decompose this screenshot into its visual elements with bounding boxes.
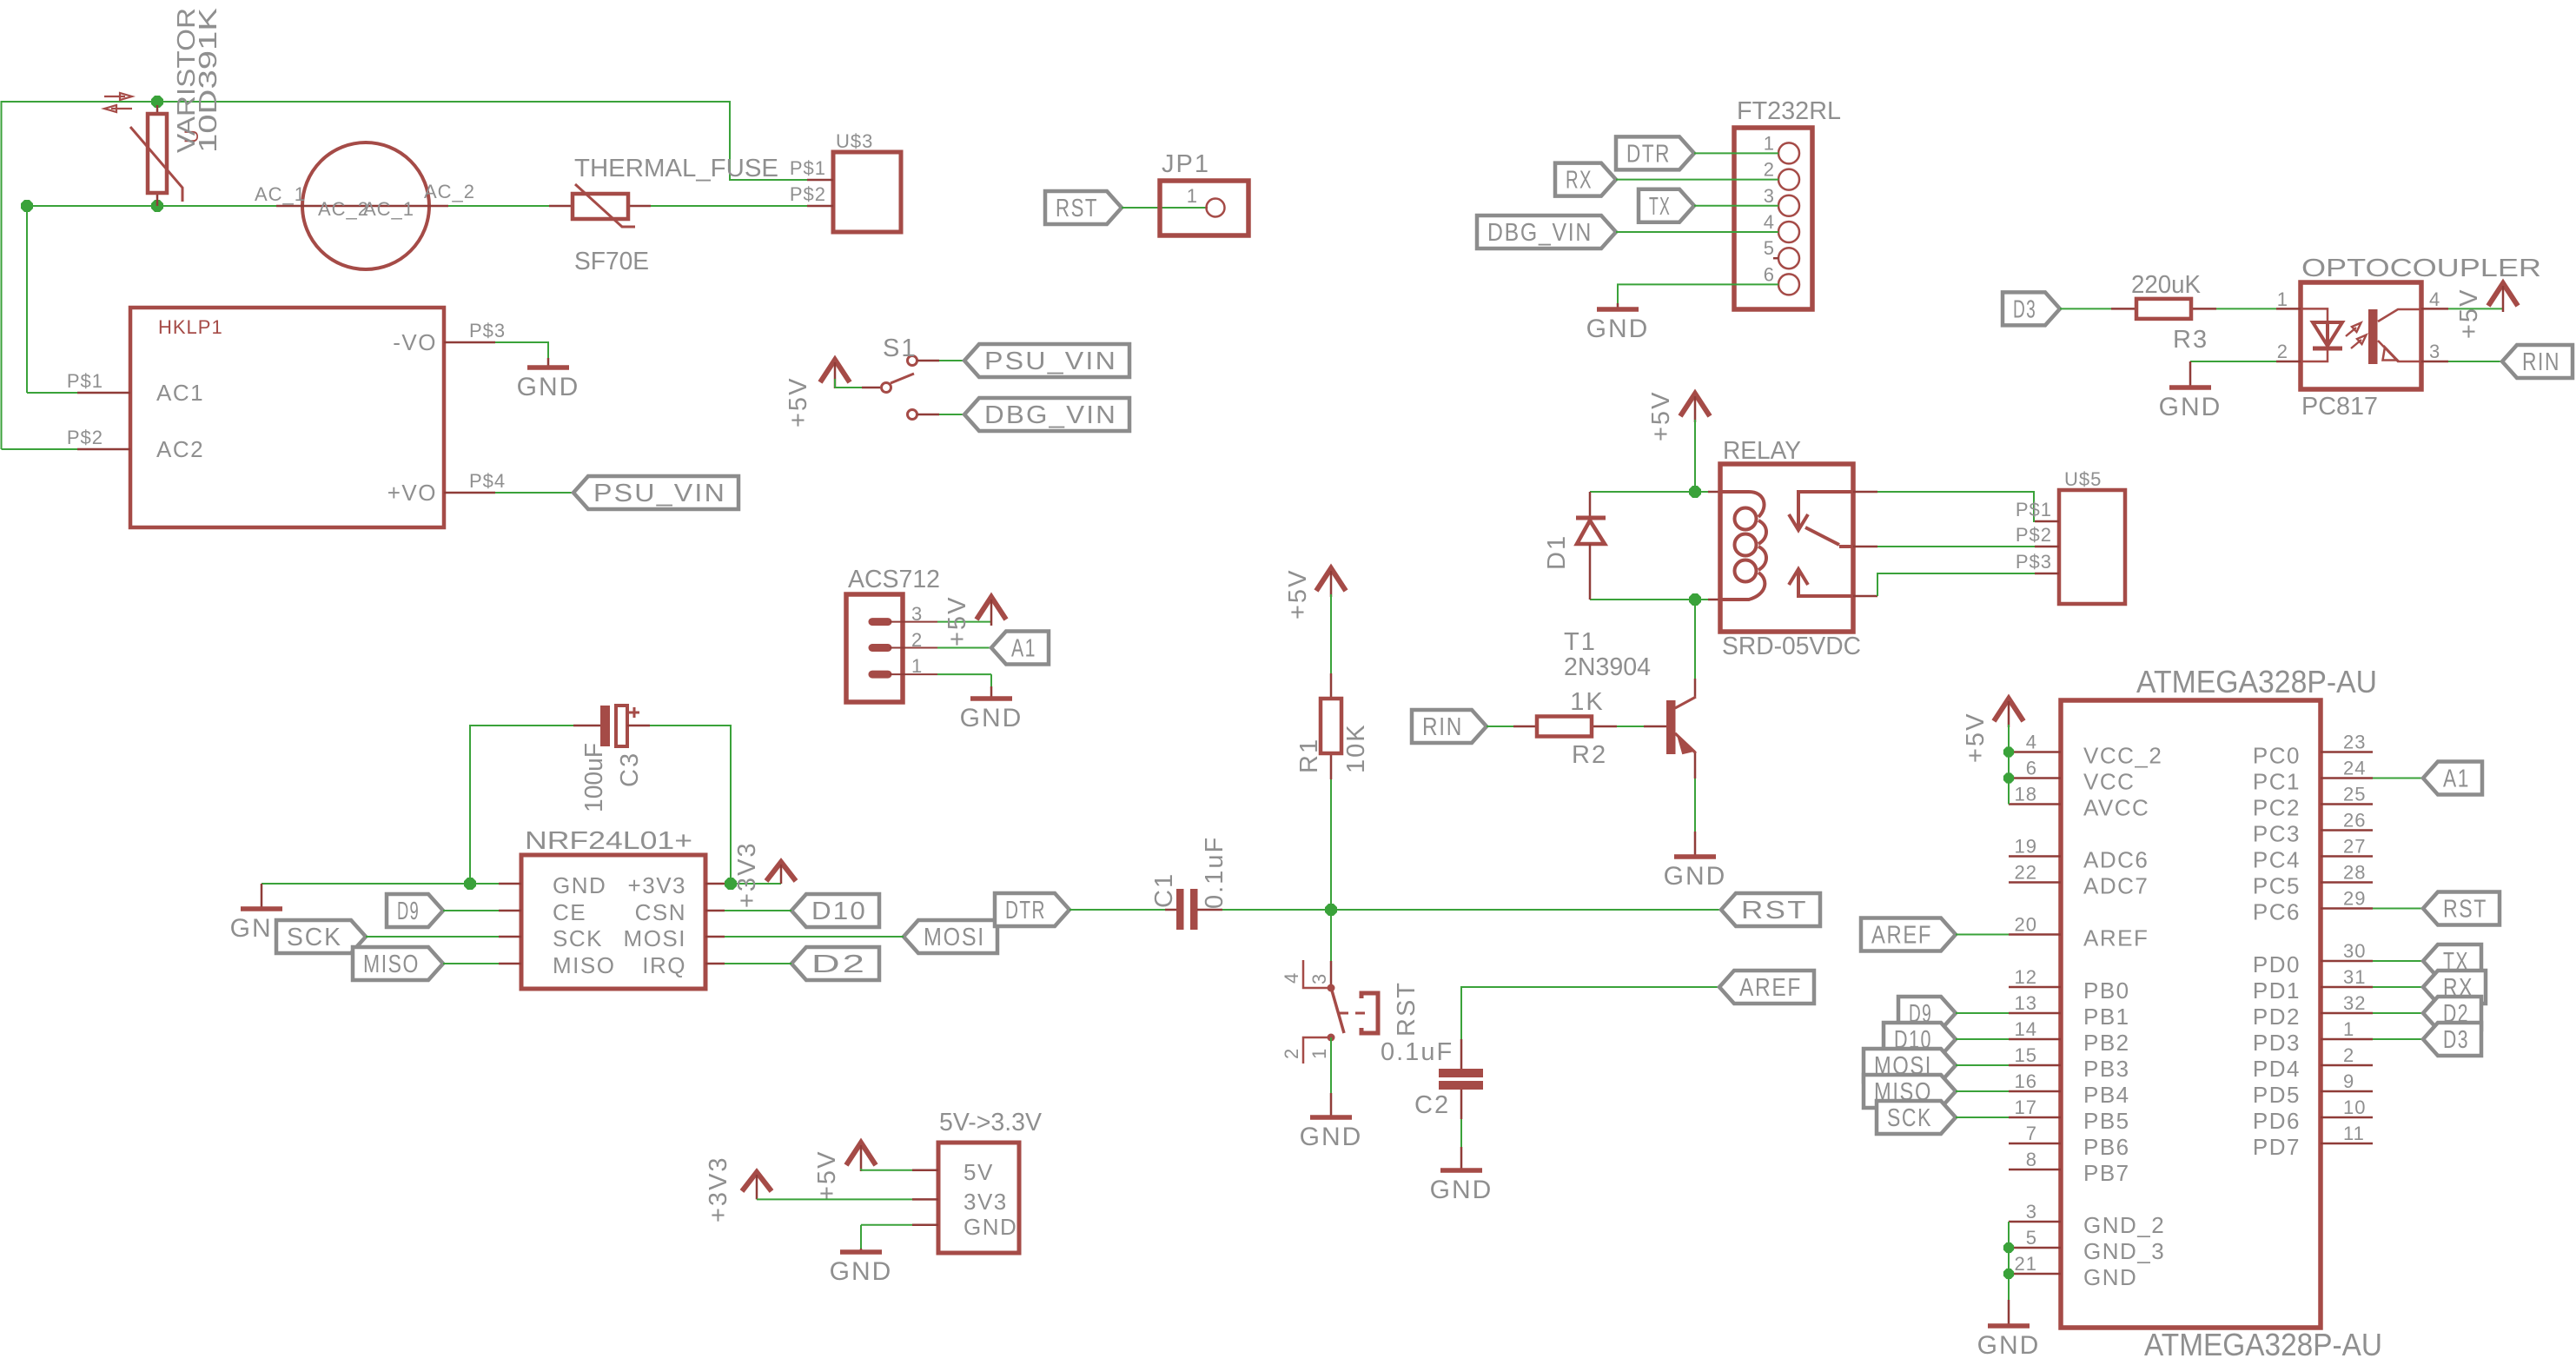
node junction NRF GND / C3 <box>465 878 475 889</box>
wire relay coil bottom to T1 collector <box>1694 600 1696 679</box>
node junction AC_2 / varistor bottom <box>22 201 32 211</box>
svg-text:GND: GND <box>1430 1176 1493 1204</box>
wire D9 to PB1 <box>1956 1012 2009 1014</box>
wire DBG_VIN to FT232RL pin 4 <box>1616 231 1778 233</box>
transistor T1 (2N3904) <box>1694 679 1697 697</box>
svg-text:+3V3: +3V3 <box>733 841 761 908</box>
wire MOSI to PB3 <box>1956 1064 2009 1066</box>
svg-text:MISO: MISO <box>553 952 615 978</box>
svg-text:GND: GND <box>1977 1331 2041 1360</box>
wire ACS712 pin 1 to GND <box>937 673 991 675</box>
svg-text:10K: 10K <box>1342 723 1370 773</box>
wire PC6 to RST label <box>2373 908 2423 910</box>
svg-text:1: 1 <box>2343 1018 2354 1040</box>
wire RX to FT232RL pin 2 <box>1616 179 1778 181</box>
svg-text:CE: CE <box>553 899 586 925</box>
wire SCK to NRF SCK <box>366 936 499 938</box>
wire AREF net <box>1461 987 1719 1039</box>
ground symbol at ATmega <box>2008 1300 2010 1326</box>
svg-text:1: 1 <box>1764 132 1775 154</box>
svg-text:R1: R1 <box>1295 738 1323 773</box>
wire +VO to PSU_VIN label <box>495 492 573 494</box>
svg-text:P$1: P$1 <box>2016 499 2052 520</box>
svg-text:D10: D10 <box>811 898 867 925</box>
svg-text:PC0: PC0 <box>2253 743 2301 769</box>
svg-text:19: 19 <box>2015 836 2037 858</box>
wire C3 right <box>650 726 731 884</box>
svg-text:PB1: PB1 <box>2083 1004 2130 1030</box>
svg-text:27: 27 <box>2343 836 2366 858</box>
net label MOSI at ATmega <box>1864 1049 1956 1082</box>
net label PSU_VIN at S1 <box>964 344 1129 377</box>
svg-text:PD0: PD0 <box>2253 951 2301 977</box>
svg-text:SCK: SCK <box>1887 1104 1932 1132</box>
svg-text:3: 3 <box>911 603 923 625</box>
svg-text:OPTOCOUPLER: OPTOCOUPLER <box>2301 255 2541 282</box>
svg-text:24: 24 <box>2343 758 2366 779</box>
wire NRF +3V3 pin to arrow <box>725 883 781 885</box>
svg-text:DTR: DTR <box>1005 897 1046 924</box>
net label MISO at NRF <box>353 947 443 980</box>
reset switch arm <box>1332 991 1344 1033</box>
svg-text:+3V3: +3V3 <box>628 872 686 898</box>
wire +5V to S1 common <box>834 379 836 388</box>
svg-text:2: 2 <box>911 629 923 651</box>
svg-text:3: 3 <box>2429 341 2440 362</box>
svg-text:10: 10 <box>2343 1097 2366 1118</box>
svg-text:C2: C2 <box>1414 1091 1450 1119</box>
net label RST at ATmega <box>2423 892 2500 925</box>
wire ATmega GND pins <box>2008 1222 2010 1300</box>
svg-text:GND: GND <box>553 872 606 898</box>
svg-text:4: 4 <box>2429 288 2440 310</box>
net label RST at JP1 <box>1045 191 1122 224</box>
resistor R3 <box>2111 308 2136 310</box>
net label RIN at R2 <box>1412 710 1487 743</box>
svg-text:13: 13 <box>2015 992 2037 1014</box>
wire NRF IRQ to D2 <box>725 963 791 964</box>
svg-text:28: 28 <box>2343 862 2366 884</box>
svg-text:RIN: RIN <box>2522 348 2560 376</box>
reset switch pins 4/3 <box>1330 961 1333 984</box>
svg-text:PC5: PC5 <box>2253 873 2301 899</box>
svg-text:PC1: PC1 <box>2253 769 2301 795</box>
svg-text:2: 2 <box>2343 1044 2354 1066</box>
net label D2 at NRF <box>791 947 879 980</box>
svg-text:5: 5 <box>2026 1227 2037 1249</box>
svg-text:2: 2 <box>2277 341 2288 362</box>
svg-text:PC6: PC6 <box>2253 899 2301 925</box>
svg-text:AC_2: AC_2 <box>424 181 475 202</box>
svg-text:100uF: 100uF <box>580 743 608 812</box>
svg-text:1: 1 <box>911 655 923 677</box>
HKLP1 pin -VO <box>444 341 495 344</box>
svg-text:1: 1 <box>1308 1048 1330 1059</box>
wire AC_1 branch to HKLP1 P$2 pin <box>2 448 78 450</box>
svg-text:+5V: +5V <box>1647 391 1675 441</box>
svg-text:T1: T1 <box>1564 628 1597 656</box>
net label SCK at ATmega <box>1877 1101 1956 1134</box>
wire DTR to FT232RL pin 1 <box>1694 152 1778 154</box>
svg-text:RST: RST <box>1056 195 1098 222</box>
svg-text:20: 20 <box>2015 914 2037 936</box>
svg-text:PC2: PC2 <box>2253 795 2301 821</box>
wire TX to FT232RL pin 3 <box>1694 205 1778 207</box>
wire reset switch to GND <box>1330 1037 1332 1093</box>
svg-text:PB3: PB3 <box>2083 1056 2130 1082</box>
svg-text:GND: GND <box>2083 1264 2137 1290</box>
wire regulator GND pin to ground <box>861 1224 912 1226</box>
net label RST at wire end <box>1721 893 1820 926</box>
net label D9 at NRF <box>387 894 443 927</box>
svg-text:D1: D1 <box>1543 534 1571 570</box>
svg-text:17: 17 <box>2015 1097 2037 1118</box>
svg-text:A1: A1 <box>2443 765 2470 793</box>
relay K1 (SRD-05VDC) <box>1720 464 1853 632</box>
resistor R1 (10K) <box>1330 673 1333 699</box>
wire AC_2 segment circle to fuse <box>448 205 549 207</box>
wire D3 to R3 <box>2060 308 2111 309</box>
svg-text:P$2: P$2 <box>790 183 826 205</box>
svg-text:P$1: P$1 <box>67 370 103 392</box>
svg-text:RELAY: RELAY <box>1723 437 1801 465</box>
net label RX at ATmega <box>2423 971 2486 1004</box>
svg-text:GND_2: GND_2 <box>2083 1212 2165 1238</box>
wire AC_2 net left segment <box>27 206 276 393</box>
svg-text:PC817: PC817 <box>2301 393 2378 421</box>
svg-text:PB0: PB0 <box>2083 977 2130 1004</box>
wire R3 to PC817 pin 1 <box>2216 308 2276 309</box>
svg-text:PD2: PD2 <box>2253 1004 2301 1030</box>
svg-text:+3V3: +3V3 <box>705 1156 732 1223</box>
net label A1 at ACS712 <box>991 632 1049 665</box>
svg-text:GND: GND <box>964 1214 1017 1240</box>
svg-text:S1: S1 <box>883 335 917 362</box>
wire MISO to NRF MISO <box>443 963 499 964</box>
wire AC_2 branch to HKLP1 P$1 pin <box>27 392 77 394</box>
svg-text:ADC6: ADC6 <box>2083 847 2149 873</box>
svg-text:4: 4 <box>2026 732 2037 753</box>
wire R2 to T1 base <box>1617 726 1644 727</box>
svg-text:HKLP1: HKLP1 <box>158 316 223 338</box>
ground symbol at C2 <box>1460 1147 1463 1170</box>
net label D9 at ATmega <box>1898 997 1956 1030</box>
svg-text:+5V: +5V <box>785 377 812 427</box>
jumper JP1 <box>1160 181 1248 235</box>
node junction GND_3 <box>2004 1243 2013 1252</box>
svg-text:+5V: +5V <box>1284 569 1312 620</box>
svg-text:U$5: U$5 <box>2064 468 2102 490</box>
wire ACS712 pin 2 to A1 label <box>937 647 991 649</box>
net label RX at FT232RL <box>1555 163 1616 196</box>
ground symbol at HKLP1 -VO <box>547 358 550 368</box>
svg-text:DBG_VIN: DBG_VIN <box>984 401 1117 429</box>
wire PD3 to D3 label <box>2373 1038 2423 1040</box>
wire C2 to GND <box>1460 1119 1462 1147</box>
svg-text:+5V: +5V <box>813 1150 841 1201</box>
AC input pin arrow (bottom) <box>111 108 132 109</box>
net label DTR at FT232RL <box>1616 136 1694 169</box>
svg-text:0.1uF: 0.1uF <box>1201 836 1228 909</box>
wire S1 to DBG_VIN label <box>939 414 964 415</box>
svg-text:MOSI: MOSI <box>924 924 985 951</box>
svg-text:3: 3 <box>2026 1201 2037 1223</box>
svg-text:ACS712: ACS712 <box>848 566 940 593</box>
wire D10 to PB2 <box>1956 1038 2009 1040</box>
wire coil bottom to D1 anode <box>1590 599 1695 600</box>
svg-text:21: 21 <box>2015 1253 2037 1275</box>
wire AREF to ATmega pin 20 <box>1956 934 2009 936</box>
node junction AC_1 / varistor top <box>152 96 162 107</box>
svg-text:30: 30 <box>2343 940 2366 962</box>
svg-text:AREF: AREF <box>1871 922 1932 950</box>
wire PC817 pin 3 to RIN label <box>2448 361 2502 362</box>
net label DTR at C1 <box>995 893 1069 926</box>
svg-text:GND_3: GND_3 <box>2083 1238 2165 1264</box>
svg-text:3: 3 <box>1764 185 1775 207</box>
svg-text:0.1uF: 0.1uF <box>1381 1038 1454 1066</box>
svg-text:CSN: CSN <box>635 899 686 925</box>
svg-text:AC_1: AC_1 <box>363 198 414 220</box>
svg-text:SF70E: SF70E <box>574 248 649 275</box>
node junction RST net <box>1326 904 1336 915</box>
wire +5V to VCC pins <box>2008 725 2010 805</box>
svg-text:+5V: +5V <box>1962 712 1990 763</box>
net label D10 at ATmega <box>1884 1023 1956 1056</box>
ground symbol at regulator <box>860 1249 863 1252</box>
svg-text:AC_2: AC_2 <box>318 198 369 220</box>
optocoupler U (PC817) <box>2301 282 2421 389</box>
svg-text:9: 9 <box>2343 1070 2354 1092</box>
net label AREF at C2 <box>1719 971 1814 1004</box>
ground symbol at ACS712 <box>990 686 993 699</box>
svg-text:MOSI: MOSI <box>624 925 686 951</box>
power symbol +5V at relay <box>1680 394 1710 416</box>
svg-text:SCK: SCK <box>553 925 603 951</box>
svg-text:ATMEGA328P-AU: ATMEGA328P-AU <box>2136 664 2377 699</box>
wire GND to PC817 pin 2 <box>2190 361 2276 362</box>
svg-text:18: 18 <box>2015 784 2037 805</box>
svg-text:PB4: PB4 <box>2083 1082 2130 1108</box>
svg-text:GND: GND <box>1664 862 1727 891</box>
wire NRF GND pin to ground <box>262 883 499 885</box>
svg-text:RST: RST <box>1741 897 1808 924</box>
header FT232RL <box>1734 128 1812 309</box>
svg-text:2: 2 <box>1281 1048 1302 1059</box>
varistor U 10D391K body <box>156 105 159 114</box>
wire PC1 to A1 label <box>2373 778 2423 779</box>
node junction varistor bottom on AC_2 <box>152 201 162 211</box>
svg-text:PSU_VIN: PSU_VIN <box>984 348 1117 375</box>
power symbol +3V3 at NRF <box>766 862 796 881</box>
wire junction to relay coil pins <box>1695 491 1708 493</box>
svg-text:SCK: SCK <box>287 924 342 951</box>
svg-text:4: 4 <box>1764 211 1775 233</box>
svg-text:PD1: PD1 <box>2253 977 2301 1004</box>
svg-text:RST: RST <box>1393 981 1420 1037</box>
net label TX at ATmega <box>2423 944 2481 977</box>
svg-text:AREF: AREF <box>2083 925 2149 951</box>
wire AC_1 net (top rail from AC input to U$3 P$1) <box>2 102 808 449</box>
diode D1 <box>1589 492 1592 516</box>
connector U$5 <box>2059 490 2125 604</box>
node junction relay coil bottom <box>1690 594 1700 605</box>
net label PSU_VIN at HKLP1 <box>573 476 738 509</box>
svg-text:JP1: JP1 <box>1162 150 1210 178</box>
HKLP1 pin AC1 <box>77 392 130 394</box>
svg-text:+5V: +5V <box>944 596 971 646</box>
svg-text:PD7: PD7 <box>2253 1134 2301 1160</box>
wire +3V3 to regulator 3V3 pin <box>757 1198 912 1200</box>
node junction relay coil top <box>1690 487 1700 497</box>
wire RST to JP1 pin 1 <box>1122 207 1206 209</box>
svg-text:D3: D3 <box>2443 1026 2469 1054</box>
wire R1 to RST node <box>1330 779 1332 910</box>
svg-text:4: 4 <box>1281 972 1302 984</box>
power module HKLP1 box <box>130 308 444 527</box>
node junction GND <box>2004 1269 2013 1278</box>
svg-text:31: 31 <box>2343 966 2366 988</box>
svg-text:6: 6 <box>2026 758 2037 779</box>
FT232RL pin 5 stub <box>1773 257 1778 260</box>
svg-text:R3: R3 <box>2173 326 2208 354</box>
power symbol +3V3 at regulator <box>742 1172 771 1191</box>
svg-text:10D391K: 10D391K <box>195 7 222 153</box>
svg-text:5V: 5V <box>964 1159 994 1185</box>
svg-text:1: 1 <box>2277 288 2288 310</box>
svg-text:GND: GND <box>1586 315 1650 343</box>
wire +5V to R1 <box>1330 594 1332 673</box>
svg-text:PSU_VIN: PSU_VIN <box>593 480 726 507</box>
svg-text:GND: GND <box>830 1257 893 1286</box>
capacitor C1 (0.1uF) <box>1165 909 1176 911</box>
wire +5V to relay coil top <box>1694 420 1696 492</box>
svg-text:PC3: PC3 <box>2253 821 2301 847</box>
svg-text:PB6: PB6 <box>2083 1134 2130 1160</box>
svg-text:DTR: DTR <box>1626 140 1671 168</box>
switch S1 common contact <box>862 387 880 389</box>
svg-text:GND: GND <box>1300 1123 1363 1151</box>
svg-text:1: 1 <box>1187 185 1198 207</box>
HKLP1 pin +VO <box>444 492 495 494</box>
svg-text:23: 23 <box>2343 732 2366 753</box>
svg-text:GND: GND <box>2159 393 2222 421</box>
wire FT232RL pin 6 to GND <box>1618 284 1778 303</box>
wire MISO to PB4 <box>1956 1090 2009 1092</box>
svg-text:PB5: PB5 <box>2083 1108 2130 1134</box>
svg-text:PC4: PC4 <box>2253 847 2301 873</box>
svg-text:DBG_VIN: DBG_VIN <box>1487 219 1593 247</box>
svg-text:5: 5 <box>1764 237 1775 259</box>
reset switch button symbol <box>1339 1012 1365 1015</box>
wire relay NO contact to U$5 P$1 <box>1853 491 1877 494</box>
svg-text:16: 16 <box>2015 1070 2037 1092</box>
svg-text:U$3: U$3 <box>836 130 873 152</box>
ground symbol at T1 emitter <box>1694 832 1697 857</box>
svg-text:11: 11 <box>2343 1123 2365 1144</box>
svg-text:GND: GND <box>960 704 1023 732</box>
resistor R2 <box>1513 726 1537 728</box>
wire SCK to PB5 <box>1956 1117 2009 1118</box>
svg-text:32: 32 <box>2343 992 2366 1014</box>
svg-text:6: 6 <box>1764 263 1775 285</box>
svg-text:VCC_2: VCC_2 <box>2083 743 2162 769</box>
svg-text:AC_1: AC_1 <box>255 183 306 205</box>
net label D3 at ATmega <box>2423 1023 2481 1056</box>
current transformer circle <box>302 142 429 269</box>
svg-text:SRD-05VDC: SRD-05VDC <box>1722 633 1861 660</box>
svg-text:GND: GND <box>517 373 580 401</box>
net label A1 at ATmega <box>2423 762 2482 795</box>
svg-text:RST: RST <box>2443 896 2487 924</box>
svg-text:C1: C1 <box>1150 872 1178 908</box>
net label DBG_VIN at S1 <box>964 398 1129 431</box>
svg-text:D3: D3 <box>2013 295 2036 323</box>
svg-text:D2: D2 <box>811 951 867 978</box>
svg-text:29: 29 <box>2343 888 2366 910</box>
net label D3 <box>2003 292 2060 325</box>
svg-text:7: 7 <box>2026 1123 2037 1144</box>
svg-text:AC1: AC1 <box>156 380 204 406</box>
ground symbol at reset switch <box>1330 1093 1333 1117</box>
wire PC817 pin 4 to +5V <box>2448 308 2503 309</box>
svg-text:PD3: PD3 <box>2253 1030 2301 1056</box>
switch S1 throw 2 contact <box>908 410 917 420</box>
regulator 5V->3.3V <box>938 1143 1019 1253</box>
ground symbol at PC817 pin 2 <box>2189 361 2192 388</box>
wire relay common to U$5 P$2 <box>1853 546 1877 548</box>
svg-text:+VO: +VO <box>387 480 437 506</box>
svg-text:P$2: P$2 <box>67 427 103 448</box>
svg-text:PD5: PD5 <box>2253 1082 2301 1108</box>
node junction NRF +3V3 / C3 <box>725 878 736 889</box>
net label MOSI at NRF <box>904 920 997 953</box>
node junction VCC <box>2004 773 2013 782</box>
svg-text:IRQ: IRQ <box>642 952 686 978</box>
svg-text:ADC7: ADC7 <box>2083 873 2149 899</box>
wire DTR to C1 <box>1069 909 1165 911</box>
reset switch pins 2/1 <box>1328 1034 1335 1042</box>
wire T1 emitter to GND <box>1694 779 1696 832</box>
AC input pin arrow (top) <box>104 96 125 97</box>
net label MISO at ATmega <box>1864 1075 1956 1108</box>
wire RIN to R2 <box>1487 726 1513 727</box>
wire S1 to PSU_VIN label <box>939 360 964 361</box>
svg-text:12: 12 <box>2015 966 2037 988</box>
wire +5V to regulator 5V pin <box>860 1169 862 1170</box>
svg-text:AC2: AC2 <box>156 436 204 462</box>
svg-text:PB7: PB7 <box>2083 1160 2130 1186</box>
svg-text:AVCC: AVCC <box>2083 795 2149 821</box>
wire C3 left <box>470 726 573 884</box>
svg-text:22: 22 <box>2015 862 2037 884</box>
svg-text:P$3: P$3 <box>469 320 506 341</box>
wire coil top to D1 cathode <box>1590 491 1695 493</box>
svg-text:1K: 1K <box>1570 688 1604 716</box>
power symbol +5V at S1 <box>820 360 850 382</box>
net label TX at FT232RL <box>1639 189 1694 222</box>
svg-text:P$4: P$4 <box>469 470 506 492</box>
svg-text:25: 25 <box>2343 784 2366 805</box>
wire D9 to NRF CE <box>443 910 499 911</box>
ground symbol at FT232RL <box>1617 303 1619 309</box>
HKLP1 pin AC2 <box>77 448 130 451</box>
svg-text:26: 26 <box>2343 810 2366 832</box>
svg-text:D9: D9 <box>397 898 420 925</box>
power symbol +5V at ATmega <box>1994 699 2023 721</box>
wire RST node down to reset switch <box>1330 910 1332 961</box>
svg-text:15: 15 <box>2015 1044 2037 1066</box>
